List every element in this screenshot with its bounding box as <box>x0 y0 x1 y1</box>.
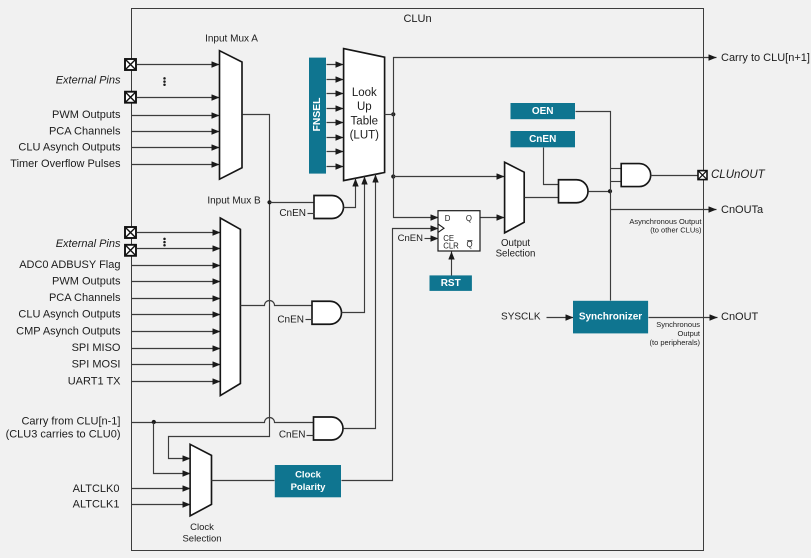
svg-text:Polarity: Polarity <box>291 482 327 493</box>
label PCA Channels (Mux A) <box>49 126 121 138</box>
svg-text:Selection: Selection <box>496 249 536 260</box>
wire: async node vertical to Synchronizer <box>610 169 612 301</box>
svg-text:CMP Asynch Outputs: CMP Asynch Outputs <box>16 325 121 337</box>
wire: OEN into AND gate 5 top input <box>611 168 622 170</box>
mux: Clock Selection <box>190 444 211 516</box>
label CnEN (flip-flop CE) <box>398 233 423 244</box>
svg-text:CLUn: CLUn <box>403 13 431 25</box>
flip-flop clock wedge <box>438 224 444 232</box>
external pin symbol A1 <box>125 59 136 70</box>
label Input Mux A <box>205 34 258 45</box>
svg-text:CnOUTa: CnOUTa <box>721 204 764 216</box>
D flip-flop box <box>438 211 480 251</box>
wire: CnEN register to AND gate 4 top input <box>544 148 559 185</box>
wire SYSCLK to Synchronizer <box>547 317 574 319</box>
svg-text:Up: Up <box>357 101 372 113</box>
mux: Output Selection <box>505 162 525 233</box>
svg-text:CnEN: CnEN <box>279 430 306 441</box>
wire: Clock Selection output to Clock Polarity <box>212 480 275 482</box>
wire: AND gate 1 output to LUT <box>344 179 356 208</box>
pin label D <box>445 214 451 223</box>
label CLU Asynch Outputs (Mux A) <box>18 142 121 154</box>
svg-text:(to peripherals): (to peripherals) <box>650 338 701 347</box>
svg-text:Input Mux A: Input Mux A <box>205 34 258 45</box>
wire: async node to CnOUTa <box>611 209 717 211</box>
pin label Q <box>466 214 472 223</box>
ellipsis dots (Mux B) <box>163 238 166 247</box>
pin label CLR <box>443 241 459 250</box>
svg-text:ALTCLK1: ALTCLK1 <box>73 499 120 511</box>
label CnEN (gate 2) <box>277 314 304 325</box>
RST register box <box>430 275 472 291</box>
pin label CE <box>443 234 454 243</box>
label CLU Asynch Outputs (Mux B) <box>18 309 121 321</box>
label CnEN (register) <box>529 134 556 145</box>
svg-text:D: D <box>445 214 451 223</box>
wire: node to AND gate 5 bottom input <box>611 181 622 183</box>
svg-text:(CLU3 carries to CLU0): (CLU3 carries to CLU0) <box>6 428 121 440</box>
wire: Synchronizer output to CnOUT <box>649 317 718 319</box>
svg-text:(to other CLUs): (to other CLUs) <box>650 225 702 234</box>
AND gate 4 (CnEN output gate) <box>559 180 589 203</box>
wire ADC0 ADBUSY Flag to Input Mux B <box>132 265 221 267</box>
AND gate 1 (Mux A enable) <box>314 196 344 219</box>
svg-text:CnEN: CnEN <box>277 314 304 325</box>
label Asynchronous Output <box>629 217 702 226</box>
label Synchronous <box>656 320 700 329</box>
svg-text:Output: Output <box>677 329 700 338</box>
external pin symbol B1 <box>125 227 136 238</box>
wire: Input Mux A output to Clock Selection input 1 <box>169 115 270 459</box>
svg-text:ADC0 ADBUSY Flag: ADC0 ADBUSY Flag <box>19 259 120 271</box>
svg-text:SYSCLK: SYSCLK <box>501 311 541 322</box>
label Clock Polarity <box>291 469 327 493</box>
wire pin B2 to Input Mux B <box>137 248 221 250</box>
wire CLU Asynch Outputs to Input Mux A <box>132 147 220 149</box>
wire pin A1 to Input Mux A <box>137 64 220 66</box>
svg-text:CLUnOUT: CLUnOUT <box>711 169 766 181</box>
svg-text:Look: Look <box>352 87 377 99</box>
wire PCA Channels to Input Mux B <box>132 298 221 300</box>
Synchronizer box <box>573 301 648 334</box>
label Look Up Table (LUT) <box>350 87 380 142</box>
junction: LUT output node <box>391 112 395 116</box>
wire: Output Selection output to AND gate 4 <box>525 197 559 199</box>
svg-text:CLR: CLR <box>443 241 459 250</box>
wire: carry net to Clock Selection input 2 <box>154 423 191 474</box>
FNSEL to LUT wire 1 <box>327 64 344 66</box>
ellipsis dots (Mux A) <box>163 77 166 86</box>
label CnEN (gate 1) <box>279 208 306 219</box>
svg-text:CnEN: CnEN <box>279 208 306 219</box>
label CnEN (gate 3) <box>279 430 306 441</box>
wire: AND gate 3 output to LUT <box>344 175 376 429</box>
wire ALTCLK1 to Clock Selection <box>132 504 191 506</box>
wire CLU Asynch Outputs to Input Mux B <box>132 314 221 316</box>
svg-text:RST: RST <box>441 278 461 289</box>
label External Pins (Mux B) <box>56 238 121 250</box>
svg-text:Clock: Clock <box>190 522 214 533</box>
svg-text:PCA Channels: PCA Channels <box>49 126 121 138</box>
label FNSEL <box>312 98 323 132</box>
label SYSCLK <box>501 311 541 322</box>
wire: Mux A net into AND gate 1 <box>270 202 315 204</box>
FNSEL to LUT wire 6 <box>327 137 344 139</box>
FNSEL to LUT wire 4 <box>327 108 344 110</box>
label Timer Overflow Pulses (Mux A) <box>10 158 121 170</box>
wire UART1 TX to Input Mux B <box>132 381 221 383</box>
label RST <box>441 278 461 289</box>
label PWM Outputs (Mux A) <box>52 109 121 121</box>
pin label Qbar <box>467 240 473 249</box>
AND gate 5 (OEN output gate) <box>621 164 651 187</box>
mux: Input Mux B <box>220 218 240 396</box>
wire: Carry from CLU[n-1] to AND gate 3 (hop over Mux A net) <box>132 418 314 423</box>
label ALTCLK1 <box>73 499 120 511</box>
FNSEL to LUT wire 8 <box>327 166 344 168</box>
svg-text:PWM Outputs: PWM Outputs <box>52 275 121 287</box>
svg-text:Clock: Clock <box>295 469 322 480</box>
label UART1 TX <box>68 375 121 387</box>
wire ALTCLK0 to Clock Selection <box>132 488 191 490</box>
wire pin A2 to Input Mux A <box>137 97 220 99</box>
Clock Polarity box <box>275 465 341 497</box>
CnEN register box <box>511 131 576 147</box>
label PCA Channels (Mux B) <box>49 292 121 304</box>
wire CnEN to CE input <box>425 238 439 240</box>
label Carry to CLU[n+1] <box>721 52 810 64</box>
external pin symbol A2 <box>125 92 136 103</box>
svg-text:UART1 TX: UART1 TX <box>68 375 121 387</box>
Look Up Table (LUT) block <box>344 49 385 181</box>
label Synchronizer <box>579 311 642 322</box>
wire CMP Asynch Outputs to Input Mux B <box>132 331 221 333</box>
wire: LUT output to Carry to CLU[n+1] <box>394 58 717 115</box>
wire SPI MISO to Input Mux B <box>132 348 221 350</box>
label (to peripherals) <box>650 338 701 347</box>
svg-text:Synchronous: Synchronous <box>656 320 700 329</box>
wire PWM Outputs to Input Mux A <box>132 115 220 117</box>
label CLUnOUT <box>711 169 766 181</box>
svg-text:CLU Asynch Outputs: CLU Asynch Outputs <box>18 142 121 154</box>
label (CLU3 carries to CLU0) <box>6 428 121 440</box>
label Input Mux B <box>207 196 261 207</box>
label SPI MOSI <box>72 359 121 371</box>
junction: LUT net branch to Output Selection <box>391 174 395 178</box>
svg-text:CnEN: CnEN <box>398 233 423 244</box>
svg-text:Selection: Selection <box>182 534 221 545</box>
mux: Input Mux A <box>220 51 243 180</box>
svg-text:PCA Channels: PCA Channels <box>49 292 121 304</box>
wire: AND gate 4 output to node <box>589 191 611 193</box>
svg-text:CLU Asynch Outputs: CLU Asynch Outputs <box>18 309 121 321</box>
wire: LUT output stub <box>385 114 394 116</box>
FNSEL to LUT wire 5 <box>327 122 344 124</box>
FNSEL to LUT wire 7 <box>327 151 344 153</box>
svg-text:ALTCLK0: ALTCLK0 <box>73 483 120 495</box>
CLUn enclosure box <box>132 9 704 551</box>
svg-text:Input Mux B: Input Mux B <box>207 196 261 207</box>
wire CnEN stub gate 1 <box>308 213 315 215</box>
junction: Mux A output to AND gate 1 <box>267 200 271 204</box>
OEN register box <box>511 103 576 119</box>
svg-text:PWM Outputs: PWM Outputs <box>52 109 121 121</box>
svg-text:Table: Table <box>351 115 379 127</box>
svg-text:(LUT): (LUT) <box>350 130 380 142</box>
wire SPI MOSI to Input Mux B <box>132 364 221 366</box>
external pin symbol B2 <box>125 245 136 256</box>
svg-text:CnOUT: CnOUT <box>721 311 759 323</box>
wire: OEN to AND gate 5 top input <box>576 112 611 169</box>
svg-text:Q: Q <box>466 214 472 223</box>
wire: LUT net vertical segment <box>393 115 395 177</box>
label CMP Asynch Outputs <box>16 325 121 337</box>
AND gate 2 (Mux B enable) <box>312 301 342 324</box>
wire PCA Channels to Input Mux A <box>132 131 220 133</box>
svg-text:OEN: OEN <box>532 106 554 117</box>
label ALTCLK0 <box>73 483 120 495</box>
wire: AND gate 2 output to LUT <box>342 177 365 313</box>
svg-text:Timer Overflow Pulses: Timer Overflow Pulses <box>10 158 121 170</box>
wire: LUT net to Output Selection input 1 <box>394 176 505 178</box>
label External Pins (Mux A) <box>56 75 121 87</box>
label OEN <box>532 106 554 117</box>
wire PWM Outputs to Input Mux B <box>132 281 221 283</box>
wire: LUT net to flip-flop D input <box>394 177 439 218</box>
label Output Selection <box>496 238 536 260</box>
svg-text:External Pins: External Pins <box>56 75 121 87</box>
FNSEL to LUT wire 3 <box>327 93 344 95</box>
svg-text:Synchronizer: Synchronizer <box>579 311 642 322</box>
wire CnEN stub gate 3 <box>307 435 314 437</box>
wire: flip-flop Q to Output Selection input 2 <box>481 217 505 219</box>
wire: Input Mux B output to AND gate 2 (hop over Mux A net) <box>241 301 313 306</box>
wire Timer Overflow Pulses to Input Mux A <box>132 164 220 166</box>
wire pin B1 to Input Mux B <box>137 232 221 234</box>
label SPI MISO <box>72 342 121 354</box>
wire CnEN stub gate 2 <box>306 319 313 321</box>
label PWM Outputs (Mux B) <box>52 275 121 287</box>
wire RST to flip-flop CLR <box>451 252 453 276</box>
junction: carry net branch to clock mux <box>152 420 156 424</box>
svg-text:Carry to CLU[n+1]: Carry to CLU[n+1] <box>721 52 810 64</box>
svg-text:CnEN: CnEN <box>529 134 556 145</box>
label (to other CLUs) <box>650 225 702 234</box>
label CnOUTa <box>721 204 764 216</box>
wire: AND gate 5 output to CLUnOUT pin <box>651 175 699 177</box>
FNSEL register box <box>309 58 326 174</box>
label CnOUT <box>721 311 759 323</box>
svg-text:External Pins: External Pins <box>56 238 121 250</box>
label CLUn <box>403 13 431 25</box>
label Clock Selection <box>182 522 221 545</box>
svg-text:Output: Output <box>501 238 530 249</box>
svg-text:Carry from CLU[n-1]: Carry from CLU[n-1] <box>21 415 120 427</box>
junction: async output node <box>608 189 612 193</box>
FNSEL to LUT wire 2 <box>327 79 344 81</box>
AND gate 3 (carry enable) <box>314 417 344 440</box>
svg-text:SPI MOSI: SPI MOSI <box>72 359 121 371</box>
label Output <box>677 329 700 338</box>
svg-text:SPI MISO: SPI MISO <box>72 342 121 354</box>
wire: Clock Polarity output to flip-flop clock <box>342 229 439 481</box>
label Carry from CLU[n-1] <box>21 415 120 427</box>
svg-text:FNSEL: FNSEL <box>312 98 323 132</box>
external pin symbol CLUnOUT <box>698 171 707 180</box>
label ADC0 ADBUSY Flag <box>19 259 120 271</box>
